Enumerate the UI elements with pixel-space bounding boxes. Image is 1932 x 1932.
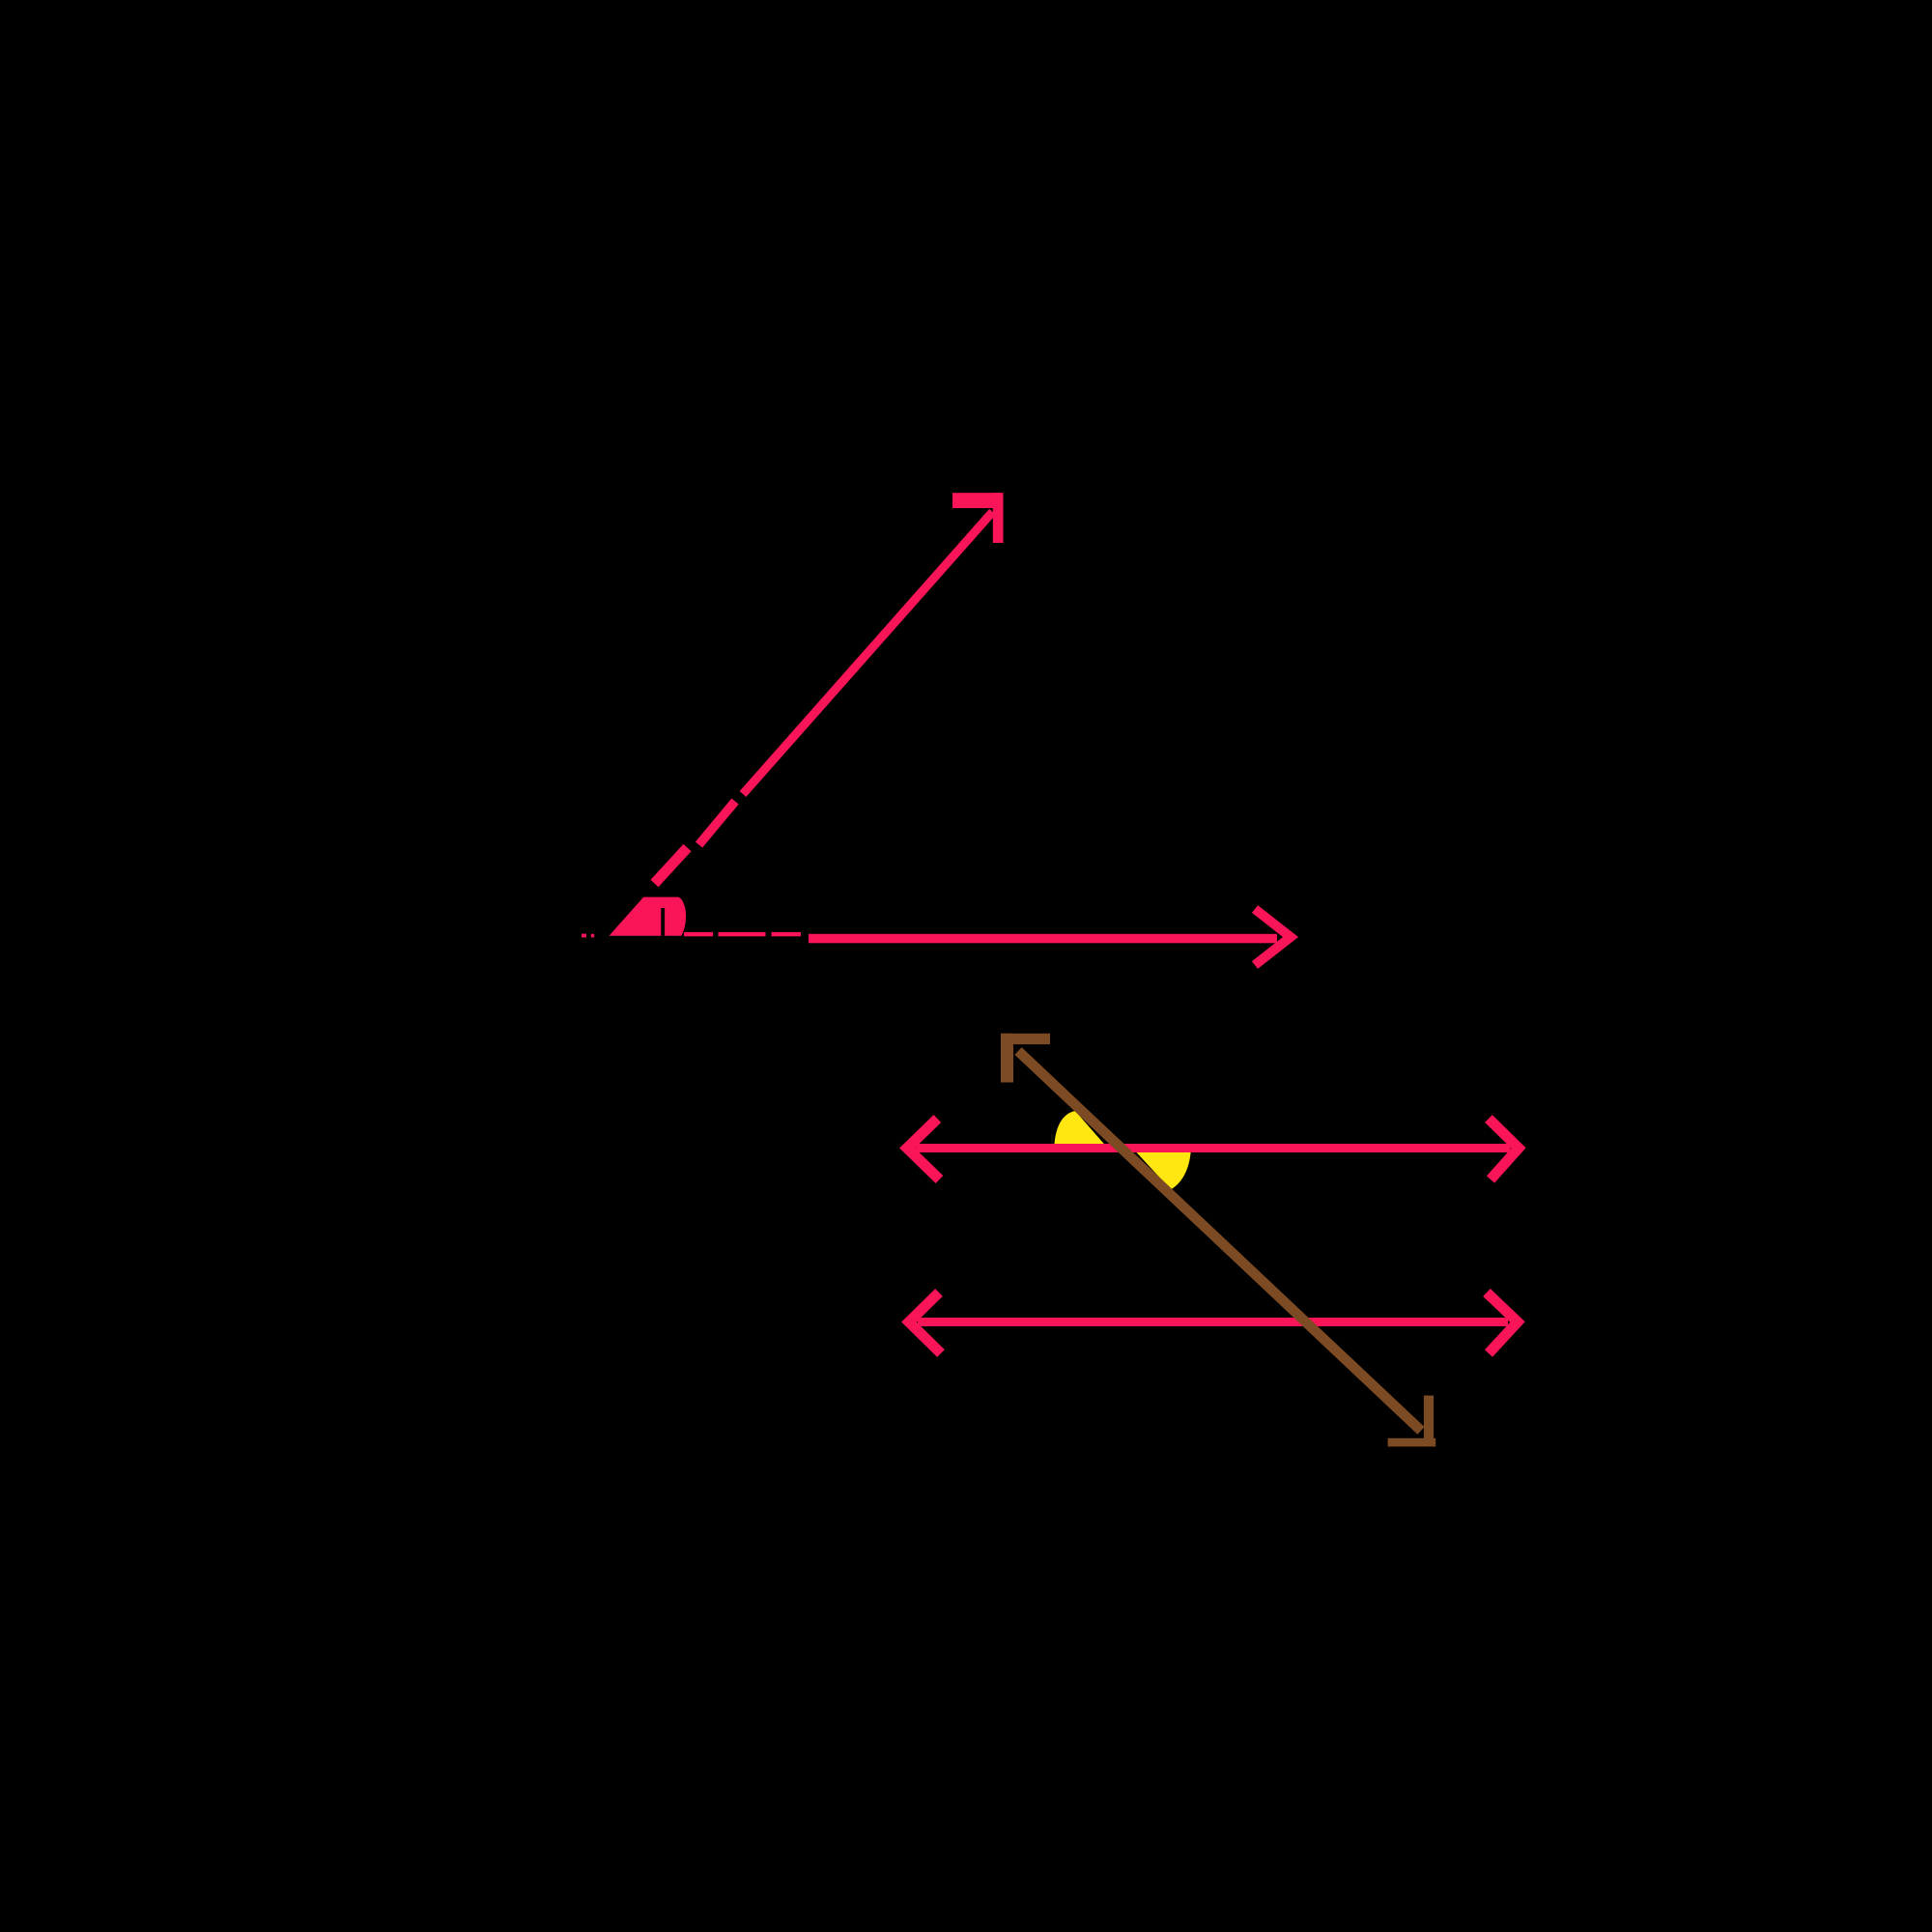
diagonal ray arrowhead horizontal bar <box>952 493 1002 508</box>
parallel line 1 right chevron <box>1489 1119 1519 1179</box>
transversal bottom arrowhead vertical bar <box>1424 1396 1434 1447</box>
transversal top arrowhead horizontal bar <box>1001 1034 1050 1044</box>
black tick inside sector <box>661 908 665 936</box>
yellow angle sector upper <box>1055 1111 1110 1150</box>
transversal bottom arrowhead horizontal bar <box>1388 1438 1436 1447</box>
diagonal ray arrowhead vertical bar <box>993 493 1004 543</box>
transversal top arrowhead vertical bar <box>1001 1034 1013 1083</box>
parallel line 2 left chevron <box>909 1293 941 1353</box>
transversal shaft <box>1018 1051 1421 1431</box>
horizontal ray solid shaft <box>809 934 1277 944</box>
diagonal ray solid shaft <box>743 512 993 794</box>
diagonal ray dash 1 <box>655 848 688 884</box>
yellow angle sector lower <box>1131 1147 1191 1190</box>
angle sector fill at vertex <box>610 897 687 936</box>
diagonal ray dash 2 <box>699 802 736 845</box>
horizontal ray arrowhead chevron <box>1255 909 1291 965</box>
horizontal ray thin dash e <box>772 932 802 936</box>
parallel line 1 left chevron <box>907 1119 940 1179</box>
horizontal ray thin dash a <box>582 934 586 938</box>
black tick at yellow sector <box>1051 1134 1053 1147</box>
horizontal ray thin dash b <box>591 934 594 938</box>
parallel line 2 right chevron <box>1487 1293 1518 1353</box>
horizontal ray thin dash d <box>719 932 766 936</box>
parallel line 1 shaft <box>916 1144 1511 1152</box>
horizontal ray thin dash c <box>684 932 713 936</box>
parallel line 2 shaft <box>918 1318 1508 1326</box>
